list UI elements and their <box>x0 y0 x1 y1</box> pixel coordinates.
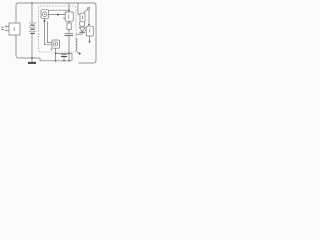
junction dot link C1 <box>68 53 70 55</box>
box T (right) <box>86 26 93 36</box>
ground bar <box>28 62 36 64</box>
wire R1 to C1 <box>68 30 70 34</box>
link line y53 <box>56 52 72 54</box>
capacitor C1 plate b <box>65 34 74 36</box>
battery cell 2 long <box>29 26 36 29</box>
battery cell 1 short <box>30 25 34 26</box>
blower A circle <box>42 12 47 17</box>
junction dot bus-ground <box>31 57 33 59</box>
battery cell 2 short <box>30 29 34 30</box>
wire M to bus <box>55 48 57 61</box>
wire battery to bus <box>31 34 33 62</box>
wire A to B top <box>49 9 70 11</box>
C2 stub top <box>63 53 65 54</box>
U hood below switch <box>80 22 85 27</box>
arrow below T <box>88 41 90 43</box>
AC plug prong 1 <box>1 26 4 28</box>
diode D1 cathode <box>79 31 85 33</box>
arrow below A <box>43 20 45 22</box>
wire lever to box T <box>88 9 90 26</box>
wire border drop to switch <box>78 3 80 14</box>
AC plug prong 2 <box>1 29 4 31</box>
motor circle <box>53 42 57 46</box>
battery cell 1 long <box>29 22 36 25</box>
motor M box <box>52 40 60 48</box>
lever tip circle <box>88 7 90 9</box>
switch lever <box>84 9 88 13</box>
node step-up x72 <box>71 53 73 60</box>
arrow flow end <box>79 52 81 55</box>
power entry module X1 <box>9 23 20 35</box>
control B box <box>65 12 73 21</box>
battery cell 3 long <box>29 30 36 33</box>
dot blower A <box>44 14 45 15</box>
module glyph <box>13 27 15 31</box>
blower A box <box>41 10 49 18</box>
glyph B <box>67 15 70 19</box>
switch S1 body <box>80 13 85 22</box>
wire C1 to bus <box>68 36 70 61</box>
glyph S1 <box>81 16 84 20</box>
capacitor C1 plate a <box>65 33 74 35</box>
bottom bus step <box>40 58 72 61</box>
wire T down <box>89 36 91 41</box>
glyph T <box>88 29 91 33</box>
motor corner tick <box>51 49 53 51</box>
dashed inner unit box <box>39 6 77 52</box>
plug tick <box>6 25 8 28</box>
wire A down 1 <box>45 18 53 45</box>
wire A to B arrowed <box>49 14 66 16</box>
wire D1 down <box>81 33 83 35</box>
pin L1 <box>5 26 9 28</box>
wire B to R1 <box>68 21 70 23</box>
junction dot bus C2 <box>63 60 65 62</box>
junction dot B top <box>68 9 70 11</box>
arrow on A-B wire <box>57 13 60 15</box>
flow arrow wire <box>77 38 79 53</box>
wire A down 2 <box>48 22 53 43</box>
wire top border to battery <box>31 3 33 23</box>
battery cell 3 short <box>30 33 34 34</box>
dot motor <box>55 43 56 44</box>
capacitor C2 plate a <box>61 54 67 56</box>
junction dot top border <box>31 2 33 4</box>
B pin 1 <box>63 14 65 16</box>
diode D1 triangle <box>79 27 85 32</box>
junction dot M link <box>55 53 57 55</box>
junction dot T wire <box>88 24 90 26</box>
B pin 2 <box>63 17 65 19</box>
C2 stub bottom <box>63 57 65 61</box>
junction dot bus C1 <box>68 60 70 62</box>
pin N <box>5 30 9 32</box>
box T pin left <box>85 29 86 31</box>
capacitor C2 plate b <box>61 56 67 58</box>
wire D1 link left <box>76 33 82 35</box>
wire border to B <box>68 3 70 12</box>
junction dot bus M <box>55 60 57 62</box>
resistor R1 <box>67 23 71 30</box>
enclosure border bottom-left <box>16 35 40 58</box>
enclosure border top/right <box>16 3 96 63</box>
